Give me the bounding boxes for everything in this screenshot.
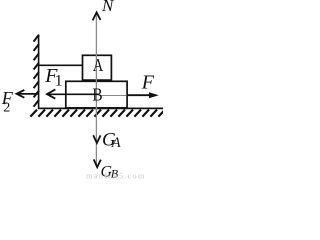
- svg-text:1: 1: [55, 73, 63, 90]
- block A: [83, 55, 112, 80]
- floor: [38, 107, 163, 109]
- svg-text:A: A: [93, 54, 104, 75]
- svg-text:manfen5.com: manfen5.com: [86, 171, 146, 181]
- floor hatching: [30, 110, 165, 117]
- svg-text:F: F: [141, 71, 155, 93]
- svg-text:B: B: [92, 84, 102, 104]
- wall: [38, 35, 40, 110]
- force GA arrowhead: [93, 135, 100, 143]
- wall hatching: [34, 35, 39, 107]
- string wall to A: [39, 64, 83, 66]
- svg-text:N: N: [101, 0, 115, 15]
- force GB arrowhead: [94, 159, 101, 167]
- svg-text:A: A: [111, 135, 121, 151]
- force N arrowhead: [93, 12, 101, 20]
- svg-text:2: 2: [3, 101, 10, 116]
- force N / G shaft (vertical line): [95, 13, 97, 166]
- force F arrow (rightward): [127, 94, 150, 96]
- force F line inside B (gray): [98, 95, 126, 97]
- block B: [66, 81, 127, 108]
- force F1 arrow (on B, leftward): [47, 93, 98, 95]
- force F2 arrow (left of wall): [17, 93, 39, 95]
